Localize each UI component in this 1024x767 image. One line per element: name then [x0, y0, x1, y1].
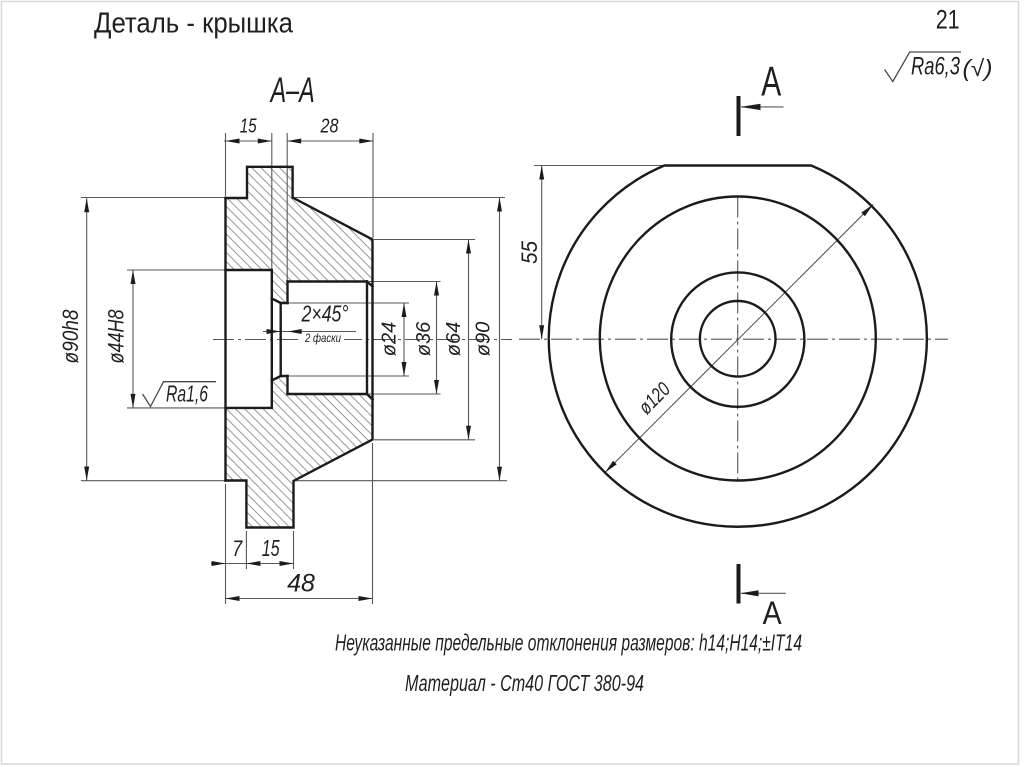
svg-text:ø90: ø90 [473, 322, 495, 356]
svg-text:28: 28 [320, 115, 339, 138]
svg-text:А–А: А–А [269, 71, 314, 110]
svg-text:2 фаски: 2 фаски [304, 331, 341, 345]
svg-text:Деталь - крышка: Деталь - крышка [94, 8, 294, 40]
svg-text:ø44H8: ø44H8 [104, 309, 129, 364]
svg-text:Материал - Ст40 ГОСТ 380-94: Материал - Ст40 ГОСТ 380-94 [405, 670, 644, 696]
svg-text:(√): (√) [963, 55, 993, 81]
svg-text:Ra6,3: Ra6,3 [911, 53, 960, 81]
svg-text:А: А [763, 595, 783, 631]
svg-text:55: 55 [517, 241, 542, 264]
svg-text:7: 7 [232, 536, 243, 561]
svg-text:21: 21 [936, 5, 960, 35]
svg-text:ø36: ø36 [413, 321, 435, 356]
svg-text:ø90h8: ø90h8 [58, 309, 83, 364]
svg-text:ø24: ø24 [379, 322, 401, 356]
svg-text:А: А [761, 58, 781, 105]
svg-text:Неуказанные предельные отклоне: Неуказанные предельные отклонения размер… [335, 630, 802, 656]
svg-text:2×45°: 2×45° [301, 301, 349, 327]
svg-text:15: 15 [240, 115, 257, 138]
svg-text:ø120: ø120 [635, 379, 675, 419]
svg-text:Ra1,6: Ra1,6 [166, 381, 208, 407]
svg-text:48: 48 [287, 570, 315, 598]
svg-text:15: 15 [262, 535, 280, 561]
svg-text:ø64: ø64 [443, 322, 465, 356]
